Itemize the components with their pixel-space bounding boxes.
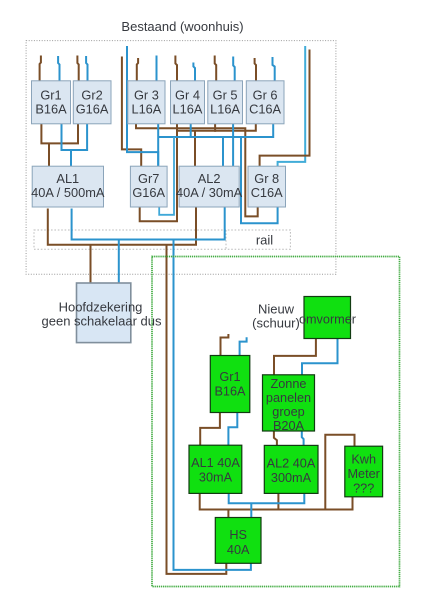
svg-text:L16A: L16A: [210, 101, 240, 116]
wire brown feeder house to HS bottom: [167, 245, 227, 574]
wire blue Gr1-Gr2 join: [62, 124, 88, 151]
svg-text:B20A: B20A: [273, 419, 305, 433]
wire brown Gr1-Gr2 join: [41, 124, 78, 144]
svg-text:Meter: Meter: [347, 467, 380, 481]
svg-text:Gr7: Gr7: [138, 171, 159, 186]
wire cyan right feeder to Gr8 top: [278, 46, 306, 167]
svg-text:AL2 40A: AL2 40A: [267, 457, 316, 471]
wire blue stub above Gr3: [156, 56, 158, 82]
wire brown stub above Gr3: [137, 58, 138, 81]
svg-text:Gr 4: Gr 4: [175, 87, 200, 102]
svg-text:AL1 40A: AL1 40A: [191, 456, 240, 470]
new barn dotted container: [152, 257, 400, 587]
wire blue Gr3 drop to Gr7 top: [157, 124, 159, 168]
breaker Gr 6: [246, 81, 284, 124]
svg-text:C16A: C16A: [251, 185, 283, 200]
breaker Gr 5: [208, 81, 243, 124]
inverter omvormer: [299, 297, 357, 339]
wire brown bus2 Gr6 drop: [177, 124, 256, 131]
breaker Gr 3: [128, 81, 165, 124]
svg-text:(schuur): (schuur): [252, 316, 300, 331]
wire blue green bus AL1 to AL2: [229, 493, 305, 503]
wire brown stub above Gr2: [77, 56, 78, 82]
breaker Gr 4: [171, 81, 205, 124]
wire blue Gr5 drop into AL2 top: [232, 124, 234, 168]
wire brown AL1 bottom bus to AL2 bottom: [48, 207, 196, 245]
wire brown stub above Gr6: [255, 58, 256, 81]
svg-text:B16A: B16A: [35, 101, 67, 116]
svg-text:40A / 30mA: 40A / 30mA: [176, 185, 243, 200]
wire blue left feeder to Gr7 top: [127, 46, 158, 167]
wire brown Zonne to green AL2: [274, 431, 277, 446]
wire brown drop into HS top: [227, 510, 229, 519]
wire blue AL1 bottom bus to AL2 bottom: [72, 207, 225, 240]
wire blue stub above green Gr1: [240, 337, 247, 355]
wire blue Gr8 bottom loop: [241, 137, 278, 223]
wire brown bus1 Gr3 to Gr8 loop: [136, 124, 258, 217]
wire blue drop into HS top: [250, 503, 252, 518]
wire blue bus into AL2 top: [222, 137, 224, 167]
breaker Zonne panelen groep B20A: [263, 375, 315, 433]
svg-text:Hoofdzekering: Hoofdzekering: [59, 300, 143, 315]
svg-text:panelen: panelen: [266, 391, 311, 405]
wire brown drop into AL1 top: [48, 143, 50, 167]
svg-text:Zonne: Zonne: [271, 377, 307, 391]
svg-text:Gr 8: Gr 8: [254, 171, 279, 186]
wire brown omvormer to Zonne: [274, 339, 316, 375]
RCD AL1: [31, 166, 105, 207]
wire brown green AL2 drop to bus: [277, 493, 279, 509]
wire brown stub above Gr5: [215, 56, 217, 82]
svg-text:Gr1: Gr1: [219, 370, 240, 384]
wire brown green bus AL1 to Kwh bottom: [200, 493, 353, 509]
svg-text:omvormer: omvormer: [299, 313, 357, 327]
wire brown Gr4 long drop to Gr7 loop: [140, 124, 177, 222]
wire blue stub above Gr1: [58, 56, 59, 81]
svg-text:AL1: AL1: [56, 171, 79, 186]
wire blue stub above Gr5: [233, 57, 235, 82]
wire brown green Gr1 to green AL1: [200, 413, 220, 446]
svg-text:Gr 6: Gr 6: [253, 87, 278, 102]
breaker Gr 8: [248, 166, 286, 207]
svg-text:40A / 500mA: 40A / 500mA: [31, 185, 105, 200]
svg-text:geen schakelaar dus: geen schakelaar dus: [42, 314, 162, 329]
wire brown stub above Gr4: [175, 56, 177, 82]
meter Kwh: [345, 446, 383, 497]
RCD AL2: [176, 166, 243, 207]
wire blue green Gr1 to green AL1: [228, 413, 237, 446]
wire brown right feeder to Gr8 top: [260, 50, 310, 168]
existing panel dotted container: [26, 41, 336, 275]
svg-text:Gr1: Gr1: [40, 87, 61, 102]
svg-text:L16A: L16A: [173, 101, 203, 116]
breaker Gr7: [130, 166, 167, 207]
svg-text:Gr 3: Gr 3: [134, 87, 159, 102]
wire blue feeder house to HS bottom: [174, 240, 251, 570]
wire blue tap to Hoofdzekering: [118, 240, 120, 285]
svg-text:B16A: B16A: [214, 385, 246, 399]
wire blue stub above Gr2: [86, 56, 87, 81]
svg-text:Bestaand (woonhuis): Bestaand (woonhuis): [121, 19, 243, 34]
RCD green AL1: [189, 445, 242, 493]
RCD green AL2: [264, 445, 318, 493]
svg-text:???: ???: [353, 482, 374, 496]
wire blue Zonne to green AL2: [302, 431, 304, 446]
wire brown stub above green Gr1: [221, 334, 229, 356]
breaker Gr2: [73, 81, 111, 124]
wire brown Kwh top loop to bus: [325, 435, 354, 510]
wire blue Gr7 bottom loop: [159, 137, 174, 215]
wire brown stub above Gr1: [40, 56, 41, 82]
svg-text:40A: 40A: [227, 543, 250, 557]
wire blue bus Gr6 drop: [158, 124, 273, 138]
svg-text:G16A: G16A: [76, 101, 109, 116]
rail dashed box: [34, 230, 290, 249]
svg-text:300mA: 300mA: [271, 471, 312, 485]
breaker Gr1: [32, 81, 71, 124]
wire brown left feeder to Gr7 top: [122, 57, 141, 168]
svg-text:30mA: 30mA: [199, 471, 233, 485]
main switch HS: [215, 518, 261, 564]
svg-text:Nieuw: Nieuw: [258, 302, 295, 317]
svg-text:Gr2: Gr2: [81, 87, 102, 102]
svg-text:Kwh: Kwh: [351, 453, 376, 467]
svg-text:groep: groep: [272, 405, 304, 419]
wire blue stub above Gr6: [273, 57, 275, 81]
svg-text:Gr 5: Gr 5: [213, 87, 238, 102]
wire brown tap to Hoofdzekering: [90, 245, 92, 284]
wire blue Gr4 drop: [190, 124, 192, 138]
wire blue stub above Gr4: [193, 63, 195, 82]
svg-text:AL2: AL2: [198, 171, 221, 186]
wire blue drop into AL1 top: [70, 150, 72, 167]
svg-text:L16A: L16A: [131, 101, 161, 116]
Hoofdzekering box: [42, 283, 162, 343]
wire brown into AL2 top: [194, 131, 196, 167]
wire brown Gr5 drop: [214, 124, 216, 132]
svg-text:rail: rail: [256, 233, 273, 248]
breaker green Gr1: [210, 356, 250, 413]
rail label divider: [225, 230, 227, 249]
wire blue omvormer to Zonne: [302, 339, 338, 375]
svg-text:G16A: G16A: [132, 185, 165, 200]
svg-text:C16A: C16A: [249, 101, 281, 116]
svg-text:HS: HS: [229, 528, 247, 542]
